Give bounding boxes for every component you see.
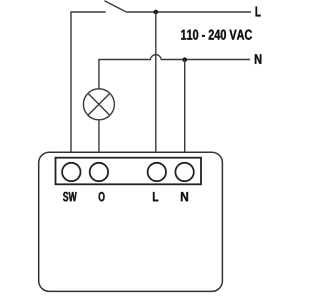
- terminal SW: [62, 163, 80, 181]
- label 110 - 240 VAC: [181, 30, 252, 40]
- wire lamp to terminal O: [98, 120, 100, 153]
- wire N vertical to terminal N: [184, 60, 186, 153]
- wire L line right segment: [126, 11, 251, 13]
- label L (line): [256, 7, 261, 17]
- terminal L: [148, 163, 166, 181]
- lamp E1 cross: [88, 93, 110, 115]
- label O: [99, 192, 105, 201]
- wire L line left segment: [71, 12, 106, 153]
- label L: [153, 192, 158, 201]
- switch S1 lever: [105, 1, 126, 12]
- node junction on N line: [182, 57, 187, 62]
- terminal O: [90, 163, 108, 181]
- terminal strip: [56, 158, 202, 185]
- module box U1 outline: [39, 152, 223, 291]
- label N: [181, 192, 188, 201]
- terminal N: [175, 163, 193, 181]
- label N (neutral): [255, 54, 261, 63]
- wire N line with hop over L wire: [99, 55, 250, 89]
- wire L vertical to terminal L: [155, 12, 157, 153]
- lamp E1 circle: [83, 89, 114, 120]
- node junction on L line: [154, 10, 159, 15]
- label SW: [63, 192, 77, 201]
